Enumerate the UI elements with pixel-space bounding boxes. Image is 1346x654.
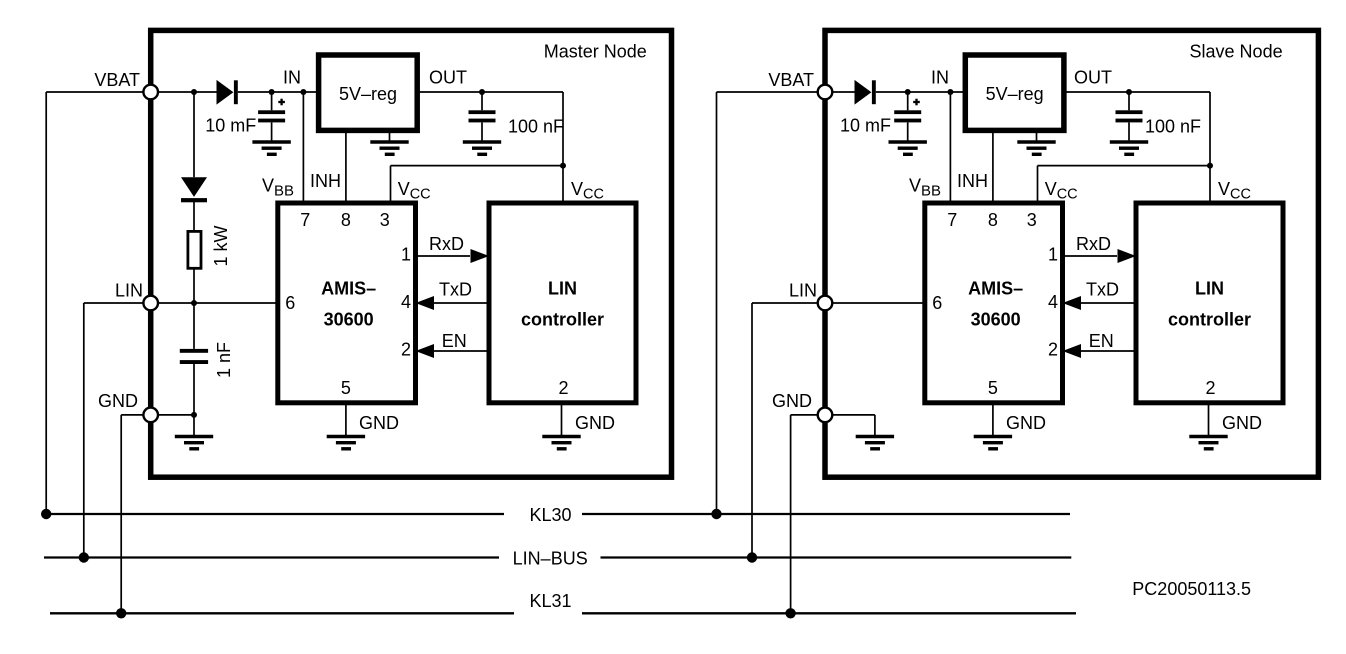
wire pin 3 drop: [390, 166, 392, 203]
wire OUT to Vcc corner slave: [1064, 91, 1210, 93]
svg-text:VBAT: VBAT: [94, 70, 140, 90]
ground below controller pin 2 slave: [1208, 403, 1210, 436]
svg-text:VCC: VCC: [398, 179, 431, 203]
wire VBAT horizontal slave: [717, 91, 855, 93]
junction dot LIN-BUS slave: [747, 552, 757, 562]
wire VBB drop slave: [949, 92, 951, 203]
svg-text:1: 1: [1048, 245, 1058, 265]
junction dot LIN-BUS master: [79, 552, 89, 562]
terminal VBAT slave: [818, 85, 833, 100]
terminal GND master: [143, 408, 158, 423]
svg-text:TxD: TxD: [1086, 280, 1119, 300]
svg-text:VBAT: VBAT: [768, 70, 814, 90]
bus LIN-BUS left segment: [44, 556, 499, 558]
svg-text:Slave Node: Slave Node: [1190, 42, 1283, 62]
capacitor C4 polarity plus: [913, 101, 920, 103]
wire EN slave: [1081, 350, 1136, 352]
wire VBB drop to pin 7: [302, 92, 304, 203]
junction dot branch to D2: [191, 89, 197, 95]
svg-text:6: 6: [932, 293, 942, 313]
wire D2 to resistor R1: [193, 202, 195, 231]
svg-text:5: 5: [341, 378, 351, 398]
junction dot KL30 master: [41, 509, 51, 519]
terminal VBAT master: [143, 85, 158, 100]
wire VBAT horizontal (terminal to diode D1): [46, 91, 216, 93]
wire GND drop to KL31: [120, 415, 122, 613]
svg-text:AMIS–: AMIS–: [321, 279, 376, 299]
svg-text:30600: 30600: [971, 310, 1021, 330]
bus KL31 left segment: [50, 612, 514, 614]
wire GND horizontal: [121, 414, 194, 416]
svg-text:TxD: TxD: [439, 280, 472, 300]
wire RxD: [416, 255, 471, 257]
svg-text:100 nF: 100 nF: [1145, 117, 1201, 137]
junction dot C5 top: [1126, 89, 1132, 95]
wire LIN horizontal slave: [752, 302, 925, 304]
svg-text:INH: INH: [957, 171, 988, 191]
LIN controller U6 box: [1136, 203, 1283, 403]
svg-text:30600: 30600: [324, 310, 374, 330]
ground below C2: [463, 140, 501, 144]
ground below 5V-reg slave: [1036, 131, 1038, 141]
svg-text:GND: GND: [359, 413, 399, 433]
capacitor C1 polarity plus: [278, 101, 285, 103]
junction dot GND-C3: [191, 412, 197, 418]
arrow EN into AMIS slave: [1063, 344, 1082, 358]
terminal LIN master: [143, 296, 158, 311]
svg-text:LIN: LIN: [1195, 279, 1224, 299]
svg-text:GND: GND: [772, 391, 812, 411]
diode D2 to LIN pull-up: [193, 92, 195, 177]
junction dot LIN-R1-C3: [191, 300, 197, 306]
svg-text:6: 6: [285, 293, 295, 313]
wire OUT to Vcc corner: [417, 91, 563, 93]
wire LIN horizontal: [84, 302, 278, 304]
svg-text:GND: GND: [1006, 413, 1046, 433]
svg-text:LIN: LIN: [548, 279, 577, 299]
wire Vcc horizontal to pin 3 slave: [1038, 165, 1211, 167]
svg-text:controller: controller: [1168, 310, 1251, 330]
svg-text:Master Node: Master Node: [544, 42, 647, 62]
wire INH slave: [992, 131, 994, 204]
svg-text:7: 7: [947, 210, 957, 230]
svg-text:LIN–BUS: LIN–BUS: [513, 548, 588, 568]
diode D3 series reverse-protection: [855, 80, 872, 105]
svg-text:7: 7: [300, 210, 310, 230]
wire TxD: [434, 302, 489, 304]
junction dot Vcc slave: [1207, 163, 1213, 169]
arrow TxD into AMIS slave: [1063, 296, 1082, 310]
bus KL30 left segment: [46, 513, 504, 515]
junction dot KL30 slave: [711, 509, 721, 519]
voltage regulator U1 5V-reg box: [319, 55, 418, 130]
wire LIN drop to LIN-BUS: [83, 303, 85, 558]
LIN controller U3 box: [489, 203, 636, 403]
diode D1 series reverse-protection: [217, 80, 234, 105]
wire VBAT drop to KL30 slave: [716, 92, 718, 514]
voltage regulator U4 5V-reg box: [965, 55, 1064, 130]
svg-text:controller: controller: [521, 310, 604, 330]
wire RxD slave: [1063, 255, 1118, 257]
wire TxD slave: [1081, 302, 1136, 304]
svg-text:2: 2: [558, 378, 568, 398]
transceiver U5 AMIS-30600 box: [925, 203, 1063, 403]
capacitor C1 10 mF: [271, 92, 273, 110]
wire Vcc vertical to controller slave: [1209, 92, 1211, 203]
svg-text:LIN: LIN: [115, 280, 143, 300]
svg-text:100 nF: 100 nF: [508, 117, 564, 137]
svg-text:8: 8: [988, 210, 998, 230]
ground below C5: [1110, 140, 1148, 144]
master node boundary box: [151, 30, 672, 477]
ground at GND terminal: [193, 415, 195, 436]
svg-text:4: 4: [401, 292, 411, 312]
capacitor C5 100 nF: [1128, 92, 1130, 110]
junction dot VBB branch slave: [947, 89, 953, 95]
transceiver U2 AMIS-30600 box: [278, 203, 416, 403]
arrow RxD into controller slave: [1118, 249, 1137, 263]
arrow EN into AMIS pin 2: [416, 344, 435, 358]
terminal GND slave: [818, 408, 833, 423]
ground below C1: [252, 140, 290, 144]
wire GND drop to KL31 slave: [790, 415, 792, 613]
capacitor C2 100 nF: [481, 92, 483, 110]
svg-text:3: 3: [380, 210, 390, 230]
wire Vcc vertical to LIN controller: [562, 92, 564, 203]
svg-text:8: 8: [341, 210, 351, 230]
svg-text:IN: IN: [931, 67, 949, 87]
svg-text:10 mF: 10 mF: [205, 115, 256, 135]
ground below AMIS pin 5 slave: [992, 403, 994, 436]
wire pin 3 drop slave: [1037, 166, 1039, 203]
arrow TxD into AMIS pin 4: [416, 296, 435, 310]
svg-text:GND: GND: [98, 391, 138, 411]
svg-text:VCC: VCC: [1045, 179, 1078, 203]
svg-text:RxD: RxD: [429, 234, 464, 254]
svg-text:GND: GND: [575, 413, 615, 433]
svg-text:VCC: VCC: [571, 179, 604, 203]
resistor R1 1 kW: [188, 231, 201, 268]
capacitor C4 10 mF: [907, 92, 909, 110]
svg-text:PC20050113.5: PC20050113.5: [1132, 579, 1251, 599]
svg-text:2: 2: [1048, 340, 1058, 360]
wire R1 to LIN node: [193, 268, 195, 303]
svg-text:5V–reg: 5V–reg: [339, 84, 397, 104]
svg-text:2: 2: [401, 340, 411, 360]
junction dot VBB branch: [300, 89, 306, 95]
wire EN: [434, 350, 489, 352]
wire D3 cathode to 5V-reg IN slave: [876, 91, 966, 93]
svg-text:RxD: RxD: [1076, 234, 1111, 254]
junction dot C2 top: [479, 89, 485, 95]
svg-text:OUT: OUT: [429, 68, 467, 88]
svg-text:VBB: VBB: [262, 176, 294, 200]
junction dot Vcc: [560, 163, 566, 169]
svg-text:1 nF: 1 nF: [214, 342, 234, 378]
svg-text:4: 4: [1048, 292, 1058, 312]
bus KL30 right segment: [582, 513, 1070, 515]
svg-text:5: 5: [988, 378, 998, 398]
arrow RxD into controller: [471, 249, 490, 263]
junction dot C4 top: [905, 89, 911, 95]
ground below C4: [889, 140, 927, 144]
capacitor C3 1 nF: [193, 303, 195, 349]
bus KL31 right segment: [582, 612, 1076, 614]
svg-text:GND: GND: [1222, 413, 1262, 433]
svg-text:VBB: VBB: [909, 176, 941, 200]
svg-text:EN: EN: [442, 331, 467, 351]
terminal LIN slave: [818, 296, 833, 311]
wire GND horizontal slave: [791, 414, 875, 416]
ground below AMIS pin 5: [345, 403, 347, 436]
slave node boundary box: [825, 30, 1318, 477]
svg-text:IN: IN: [283, 67, 301, 87]
wire LIN drop to LIN-BUS slave: [751, 303, 753, 558]
svg-text:VCC: VCC: [1218, 179, 1251, 203]
ground below controller pin 2: [561, 403, 563, 436]
bus LIN-BUS right segment: [601, 556, 1072, 558]
svg-text:3: 3: [1027, 210, 1037, 230]
svg-text:EN: EN: [1089, 331, 1114, 351]
junction dot KL31 master: [116, 608, 126, 618]
svg-text:KL30: KL30: [529, 505, 571, 525]
junction dot KL31 slave: [785, 608, 795, 618]
ground below 5V-reg: [389, 131, 391, 141]
svg-text:1: 1: [401, 245, 411, 265]
junction dot C1 top: [269, 89, 275, 95]
svg-text:KL31: KL31: [529, 591, 571, 611]
svg-text:5V–reg: 5V–reg: [986, 84, 1044, 104]
svg-text:AMIS–: AMIS–: [968, 279, 1023, 299]
ground at GND terminal slave: [874, 415, 876, 436]
svg-text:INH: INH: [310, 171, 341, 191]
svg-text:LIN: LIN: [789, 280, 817, 300]
svg-text:10 mF: 10 mF: [840, 115, 891, 135]
wire VBAT drop to KL30: [45, 92, 47, 514]
wire Vcc horizontal to pin 3: [391, 165, 564, 167]
wire D1 cathode to 5V-reg IN: [238, 91, 319, 93]
wire INH from 5V-reg to pin 8: [345, 131, 347, 204]
svg-text:1 kW: 1 kW: [211, 225, 231, 266]
svg-text:OUT: OUT: [1074, 68, 1112, 88]
svg-text:2: 2: [1205, 378, 1215, 398]
